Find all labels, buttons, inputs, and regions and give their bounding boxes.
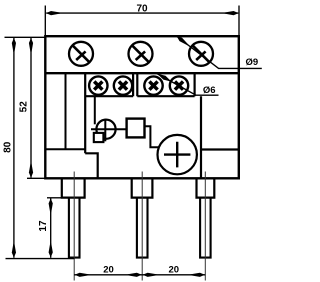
svg-text:Ø6: Ø6: [203, 85, 216, 96]
dim 80 line: [13, 38, 15, 258]
pin P1 shaft: [69, 198, 80, 258]
lamp L1: [158, 135, 197, 174]
dim 20a arrow right: [128, 273, 142, 277]
wire band line: [45, 72, 239, 74]
leader D9: [177, 36, 262, 68]
dim 52 arrow down: [29, 164, 33, 178]
leader D6: [157, 74, 219, 96]
dim 80 arrow down: [12, 244, 16, 258]
wire inner left edge: [84, 73, 86, 153]
screw S5 small: [114, 76, 132, 94]
dim 52 arrow up: [29, 38, 33, 52]
screw S4 small: [89, 76, 107, 94]
screw S3: [189, 42, 213, 66]
pin P2 centerline: [141, 172, 143, 281]
dim 17 extension top: [47, 197, 62, 199]
dim 70 extension left: [44, 6, 46, 37]
screw S2: [129, 42, 153, 66]
dim 20b arrow left: [143, 273, 157, 277]
dim top extension: [5, 36, 46, 38]
wire left shelf: [45, 148, 85, 150]
wire right column edge: [200, 96, 202, 178]
screw S1: [69, 42, 93, 66]
dim 17 line: [50, 198, 52, 257]
svg-text:Ø9: Ø9: [245, 57, 258, 68]
dim 80 arrow up: [12, 38, 16, 52]
dim 17 arrow down: [49, 243, 53, 257]
wire left divider: [65, 73, 67, 149]
pin P2 shoulder: [132, 178, 153, 197]
dim 20b arrow right: [191, 273, 205, 277]
dim 70 extension right: [238, 6, 240, 37]
dim 20a arrow left: [75, 273, 89, 277]
pin P3 shaft: [200, 198, 211, 258]
leader D9 arrow: [177, 36, 188, 45]
pin P3 shoulder: [197, 178, 215, 197]
svg-text:70: 70: [136, 4, 148, 15]
wire clamp box 1: [85, 73, 133, 96]
dim bottom extension: [6, 258, 75, 260]
body outline: [45, 36, 239, 178]
dim 70 line: [46, 12, 238, 14]
component box B1: [127, 119, 145, 138]
leader D6 arrow: [157, 74, 170, 81]
svg-text:20: 20: [103, 265, 114, 276]
dim 20 line: [74, 274, 205, 276]
pin P1 centerline: [73, 172, 75, 281]
dim 70 arrow left: [46, 11, 60, 15]
svg-text:20: 20: [169, 265, 180, 276]
wire right shelf: [201, 148, 239, 150]
pin P3 centerline: [204, 172, 206, 281]
dim 17 arrow up: [49, 198, 53, 212]
screw S7 small: [170, 76, 188, 94]
dim 70 arrow right: [225, 11, 239, 15]
svg-text:80: 80: [2, 141, 13, 153]
wire step: [85, 153, 98, 178]
wire box to lamp: [145, 126, 159, 147]
svg-text:52: 52: [18, 101, 29, 113]
screw S6 small: [144, 76, 162, 94]
wire clamp box 2: [137, 73, 194, 96]
dim 52 line: [30, 38, 32, 178]
pin P1 shoulder: [62, 178, 85, 197]
svg-text:17: 17: [38, 220, 49, 232]
adjuster A1: [91, 119, 127, 142]
wire to adjuster: [94, 96, 96, 124]
pin P2 shaft: [137, 198, 148, 258]
dim 52 extension bottom: [27, 177, 45, 179]
